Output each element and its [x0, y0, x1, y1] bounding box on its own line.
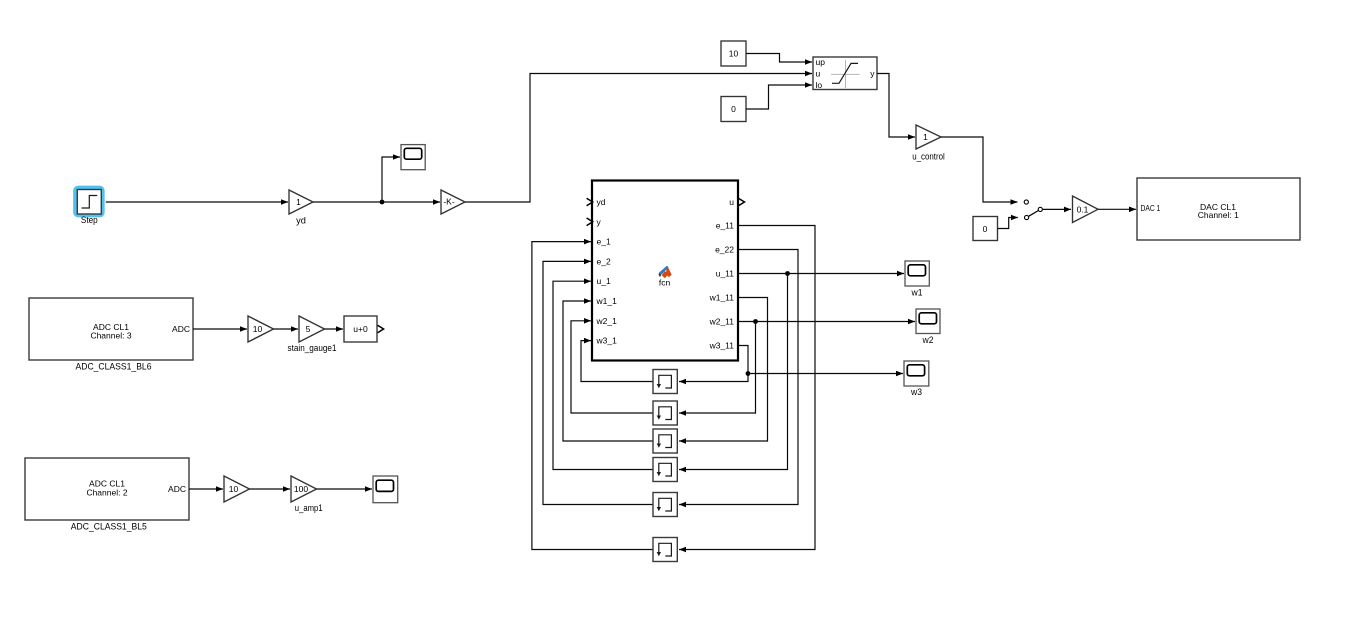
svg-text:yd: yd — [597, 197, 606, 207]
svg-text:e_2: e_2 — [597, 256, 611, 266]
svg-text:w3_1: w3_1 — [596, 336, 618, 346]
svg-text:ADC_CLASS1_BL5: ADC_CLASS1_BL5 — [71, 522, 147, 532]
svg-text:ADC: ADC — [168, 484, 186, 494]
svg-text:w1: w1 — [911, 287, 923, 297]
svg-text:u: u — [729, 197, 734, 207]
svg-text:u_control: u_control — [912, 151, 945, 161]
svg-text:ADC: ADC — [172, 324, 190, 334]
svg-text:yd: yd — [296, 215, 306, 225]
svg-text:e_22: e_22 — [715, 245, 734, 255]
svg-text:5: 5 — [306, 324, 311, 334]
svg-text:u: u — [816, 68, 821, 78]
svg-text:0.1: 0.1 — [1077, 204, 1089, 214]
svg-text:w3_11: w3_11 — [709, 341, 735, 351]
svg-text:e_11: e_11 — [716, 221, 735, 231]
svg-text:fcn: fcn — [659, 278, 671, 288]
svg-text:1: 1 — [296, 197, 301, 207]
svg-text:u+0: u+0 — [353, 324, 368, 334]
svg-text:1: 1 — [923, 132, 928, 142]
svg-text:e_1: e_1 — [597, 237, 611, 247]
svg-text:Step: Step — [81, 215, 98, 225]
svg-text:Channel: 3: Channel: 3 — [90, 330, 131, 340]
svg-text:10: 10 — [253, 324, 263, 334]
svg-text:Channel: 1: Channel: 1 — [1198, 210, 1239, 220]
svg-text:w1_1: w1_1 — [596, 296, 618, 306]
svg-text:w2_1: w2_1 — [596, 316, 618, 326]
svg-text:w3: w3 — [910, 387, 922, 397]
svg-text:u_amp1: u_amp1 — [295, 503, 323, 513]
svg-text:10: 10 — [229, 484, 239, 494]
svg-text:Channel: 2: Channel: 2 — [86, 487, 127, 497]
svg-text:DAC 1: DAC 1 — [1141, 203, 1161, 213]
svg-text:ADC_CLASS1_BL6: ADC_CLASS1_BL6 — [76, 362, 152, 372]
svg-text:up: up — [816, 57, 826, 67]
svg-text:10: 10 — [729, 49, 739, 59]
svg-text:lo: lo — [816, 80, 823, 90]
svg-text:100: 100 — [294, 484, 308, 494]
svg-text:u_11: u_11 — [716, 269, 735, 279]
svg-text:w1_11: w1_11 — [709, 293, 735, 303]
svg-text:w2: w2 — [922, 335, 934, 345]
svg-text:0: 0 — [983, 224, 988, 234]
svg-text:stain_gauge1: stain_gauge1 — [288, 343, 337, 353]
svg-text:-K-: -K- — [443, 197, 455, 207]
svg-text:u_1: u_1 — [597, 276, 611, 286]
svg-text:0: 0 — [731, 104, 736, 114]
svg-text:w2_11: w2_11 — [709, 317, 735, 327]
